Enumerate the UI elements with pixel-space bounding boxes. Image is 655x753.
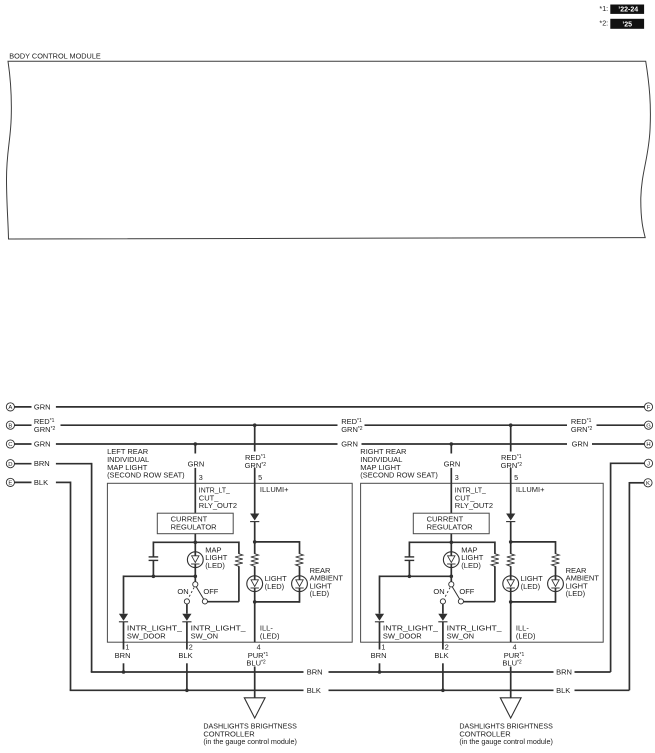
junction ill- row bbox=[509, 600, 513, 604]
svg-text:BLK: BLK bbox=[307, 686, 321, 695]
wire pin5 upper bbox=[510, 425, 512, 451]
LED light bbox=[503, 576, 519, 592]
svg-text:’25: ’25 bbox=[622, 22, 632, 29]
svg-text:RIGHT REARINDIVIDUALMAP LIGHT: RIGHT REARINDIVIDUALMAP LIGHT bbox=[360, 447, 407, 472]
wire pin4 in box bbox=[254, 602, 256, 642]
wire BLK bus seg2 bbox=[329, 689, 554, 691]
svg-text:E: E bbox=[8, 481, 12, 487]
wire pin5 lower bbox=[254, 468, 256, 514]
svg-text:BRN: BRN bbox=[307, 668, 323, 677]
wire to resistor (light) bbox=[254, 542, 256, 554]
wire bus B seg3 bbox=[597, 424, 645, 426]
wire pin1 to BRN bus bbox=[379, 663, 381, 672]
svg-text:BRN: BRN bbox=[371, 651, 387, 660]
svg-text:G: G bbox=[646, 423, 651, 429]
wire pin5 lower bbox=[510, 468, 512, 514]
wire bus B seg2 bbox=[365, 424, 568, 426]
LED map light bbox=[187, 552, 203, 568]
capacitor bbox=[149, 557, 159, 561]
svg-text:BRN: BRN bbox=[115, 651, 131, 660]
junction pin2 on BLK bus bbox=[441, 689, 445, 693]
wire bus C seg3 bbox=[592, 443, 644, 445]
wire LED light down bbox=[510, 592, 512, 602]
junction pin1 on BRN bus bbox=[122, 670, 126, 674]
wire K horizontal bbox=[629, 482, 644, 484]
wire diode to junction bbox=[510, 522, 512, 542]
connector J bbox=[644, 459, 652, 467]
note *2 value box '25 bbox=[610, 19, 644, 29]
wire OFF to resistor bbox=[464, 601, 495, 603]
connector C bbox=[6, 440, 14, 448]
svg-text:LIGHT(LED): LIGHT(LED) bbox=[521, 574, 544, 591]
wire lower row bbox=[380, 575, 452, 577]
diode (sw_door) bbox=[119, 614, 128, 622]
junction pin1 on BRN bus bbox=[378, 670, 382, 674]
wire resistor to LED (rear) bbox=[299, 566, 301, 576]
junction on bus C bbox=[194, 442, 198, 446]
dashlights brightness controller symbol bbox=[500, 698, 521, 718]
wire BLK bus seg3 bbox=[575, 689, 630, 691]
svg-text:ILLUMI+: ILLUMI+ bbox=[516, 485, 545, 494]
svg-text:ILLUMI+: ILLUMI+ bbox=[260, 485, 289, 494]
wire regulator to junction bbox=[450, 534, 452, 543]
wire pin2 to BLK bus bbox=[442, 663, 444, 690]
wire diode to box edge bbox=[442, 622, 444, 650]
svg-text:3: 3 bbox=[199, 473, 203, 482]
wire J horizontal bbox=[611, 462, 645, 464]
svg-text:J: J bbox=[647, 461, 650, 467]
body control module box bbox=[6, 61, 650, 239]
wire resistor to OFF row bbox=[494, 566, 496, 602]
resistor (rear ambient) bbox=[552, 554, 560, 567]
LED rear ambient light bbox=[292, 576, 308, 592]
wire stub A bbox=[15, 406, 32, 408]
switch OFF terminal bbox=[202, 599, 207, 604]
wire pin4 in box bbox=[510, 602, 512, 642]
wire to resistor (rear ambient) bbox=[555, 541, 557, 554]
svg-text:(SECOND ROW SEAT): (SECOND ROW SEAT) bbox=[360, 471, 438, 480]
wire E vertical to BLK bus bbox=[70, 482, 72, 691]
junction on bus B bbox=[509, 423, 513, 427]
wire illumi row bbox=[511, 541, 556, 543]
connector A bbox=[6, 403, 14, 411]
wire to switch pivot bbox=[194, 576, 196, 582]
wire ON terminal down bbox=[442, 604, 444, 614]
wire pin3 lower bbox=[194, 468, 196, 513]
svg-text:BLK: BLK bbox=[34, 478, 48, 487]
wire regulator to junction bbox=[194, 534, 196, 543]
svg-text:ON: ON bbox=[177, 587, 188, 596]
switch blade bbox=[451, 585, 460, 600]
svg-text:BLK: BLK bbox=[178, 651, 192, 660]
wire pin3 upper bbox=[450, 444, 452, 454]
wire to capacitor bbox=[408, 541, 410, 556]
wire to switch pivot bbox=[450, 576, 452, 582]
svg-text:GRN: GRN bbox=[34, 402, 51, 411]
svg-text:GRN: GRN bbox=[444, 459, 461, 468]
svg-text:B: B bbox=[8, 423, 12, 429]
wire row cap-regulator-resistor bbox=[153, 541, 239, 543]
connector G bbox=[644, 421, 652, 429]
wire stub D bbox=[15, 463, 32, 465]
wire BRN bus seg3 bbox=[575, 671, 611, 673]
dashlights brightness controller symbol bbox=[244, 698, 265, 718]
junction below regulator bbox=[194, 541, 198, 545]
svg-text:BLK: BLK bbox=[434, 651, 448, 660]
wire resistor to LED (light) bbox=[254, 566, 256, 576]
wire LED rear down bbox=[299, 592, 301, 603]
LED map light bbox=[443, 552, 459, 568]
switch ON terminal bbox=[440, 599, 445, 604]
wire OFF to resistor bbox=[208, 601, 239, 603]
junction capacitor lower bbox=[408, 575, 412, 579]
svg-text:K: K bbox=[646, 481, 650, 487]
wire D horizontal bbox=[56, 463, 92, 465]
connector E bbox=[6, 478, 14, 486]
wire lower row bbox=[124, 575, 196, 577]
resistor (map light) bbox=[235, 554, 243, 567]
wire to capacitor bbox=[152, 541, 154, 556]
junction capacitor lower bbox=[152, 575, 156, 579]
wire regulator junction to LED bbox=[194, 542, 196, 552]
svg-text:(SECOND ROW SEAT): (SECOND ROW SEAT) bbox=[107, 471, 185, 480]
wire row cap-regulator-resistor bbox=[409, 541, 495, 543]
connector K bbox=[644, 479, 652, 487]
wire E horizontal bbox=[56, 481, 71, 483]
unit box RIGHT REAR bbox=[361, 483, 604, 642]
wire BRN bus seg1 bbox=[91, 671, 304, 673]
wire pin3 upper bbox=[194, 444, 196, 454]
LED light bbox=[247, 576, 263, 592]
svg-text:OFF: OFF bbox=[203, 587, 218, 596]
svg-text:GRN: GRN bbox=[188, 459, 205, 468]
wire diode to box edge (pin1) bbox=[123, 622, 125, 650]
wire resistor to LED (rear) bbox=[555, 566, 557, 576]
LED rear ambient light bbox=[548, 576, 564, 592]
svg-text:BODY CONTROL MODULE: BODY CONTROL MODULE bbox=[9, 52, 101, 61]
wire stub B bbox=[15, 424, 32, 426]
svg-text:3: 3 bbox=[455, 473, 459, 482]
switch ON terminal bbox=[184, 599, 189, 604]
svg-text:OFF: OFF bbox=[459, 587, 474, 596]
switch blade dashed (to ON) bbox=[444, 587, 450, 598]
note *1 value box '22-24 bbox=[610, 5, 644, 14]
diode (sw_on) bbox=[438, 614, 447, 622]
wire D vertical to BRN bus bbox=[91, 463, 93, 672]
wire K vertical to BLK bus bbox=[628, 482, 630, 690]
junction on bus C bbox=[450, 442, 454, 446]
switch blade bbox=[195, 585, 204, 600]
svg-text:D: D bbox=[8, 462, 12, 468]
wire lower row corner down bbox=[379, 575, 381, 613]
svg-text:C: C bbox=[8, 442, 13, 448]
diode (sw_door) bbox=[375, 614, 384, 622]
wire lower row corner down bbox=[123, 575, 125, 613]
junction on bus B bbox=[253, 423, 257, 427]
wire illumi row bbox=[255, 541, 300, 543]
wire ill- row bbox=[511, 601, 556, 603]
wire bus C seg2 bbox=[362, 443, 568, 445]
wire pin2 to BLK bus bbox=[186, 663, 188, 690]
wire capacitor to lower row bbox=[152, 560, 154, 576]
svg-text:GRN: GRN bbox=[341, 440, 358, 449]
resistor (light) bbox=[507, 554, 515, 567]
wire LED to lower row bbox=[194, 568, 196, 577]
junction LED lower bbox=[450, 575, 454, 579]
wire diode to junction bbox=[254, 522, 256, 542]
svg-text:*1:: *1: bbox=[599, 4, 608, 13]
switch OFF terminal bbox=[458, 599, 463, 604]
switch pivot bbox=[449, 582, 454, 587]
wire stub C bbox=[15, 443, 32, 445]
wire pin4 to controller bbox=[510, 667, 512, 698]
junction illumi row bbox=[253, 540, 257, 544]
svg-text:ON: ON bbox=[433, 587, 444, 596]
wire to resistor (light) bbox=[510, 542, 512, 554]
switch pivot bbox=[193, 582, 198, 587]
connector F bbox=[644, 403, 652, 411]
connector H bbox=[644, 440, 652, 448]
svg-text:GRN: GRN bbox=[572, 440, 589, 449]
wire pin5 upper bbox=[254, 425, 256, 451]
wire regulator junction to LED bbox=[450, 542, 452, 552]
wire diode to box edge bbox=[186, 622, 188, 650]
wire stub E bbox=[15, 481, 32, 483]
capacitor bbox=[405, 557, 415, 561]
wire ill- row bbox=[255, 601, 300, 603]
wire capacitor to lower row bbox=[408, 560, 410, 576]
resistor (light) bbox=[251, 554, 259, 567]
diode (illumi feed) bbox=[506, 514, 515, 522]
diode (sw_on) bbox=[182, 614, 191, 622]
wire bus B seg1 bbox=[61, 424, 338, 426]
current regulator box bbox=[413, 513, 489, 534]
connector B bbox=[6, 421, 14, 429]
resistor (rear ambient) bbox=[296, 554, 304, 567]
svg-text:LIGHT(LED): LIGHT(LED) bbox=[265, 574, 288, 591]
junction below regulator bbox=[450, 541, 454, 545]
svg-text:LEFT REARINDIVIDUALMAP LIGHT: LEFT REARINDIVIDUALMAP LIGHT bbox=[107, 447, 149, 472]
wire pin3 lower bbox=[450, 468, 452, 513]
svg-text:H: H bbox=[646, 442, 650, 448]
svg-text:BLK: BLK bbox=[556, 686, 570, 695]
resistor (map light) bbox=[491, 554, 499, 567]
svg-text:5: 5 bbox=[258, 473, 262, 482]
wire BLK bus seg1 bbox=[70, 689, 304, 691]
wire resistor to LED (light) bbox=[510, 566, 512, 576]
wire pin4 to controller bbox=[254, 667, 256, 698]
current regulator box bbox=[157, 513, 233, 534]
wire to resistor (rear ambient) bbox=[299, 541, 301, 554]
connector D bbox=[6, 460, 14, 468]
wire LED to lower row bbox=[450, 568, 452, 577]
switch blade dashed (to ON) bbox=[188, 587, 194, 598]
wire bus C seg1 bbox=[56, 443, 338, 445]
wire to resistor (map) bbox=[238, 541, 240, 553]
svg-text:5: 5 bbox=[514, 473, 518, 482]
wire diode to box edge (pin1) bbox=[379, 622, 381, 650]
svg-text:A: A bbox=[8, 405, 12, 411]
wire ON terminal down bbox=[186, 604, 188, 614]
unit box LEFT REAR bbox=[107, 483, 352, 642]
wire J vertical to BRN bus bbox=[610, 462, 612, 672]
junction LED lower bbox=[194, 575, 198, 579]
junction pin2 on BLK bus bbox=[185, 689, 189, 693]
wire pin1 to BRN bus bbox=[123, 663, 125, 672]
junction ill- row bbox=[253, 600, 257, 604]
wire BRN bus seg2 bbox=[329, 671, 554, 673]
wire LED light down bbox=[254, 592, 256, 602]
svg-text:BRN: BRN bbox=[556, 668, 572, 677]
svg-text:*2:: *2: bbox=[599, 19, 608, 28]
svg-text:GRN: GRN bbox=[34, 440, 51, 449]
wire bus A (GRN) bbox=[56, 406, 645, 408]
wire resistor to OFF row bbox=[238, 566, 240, 602]
junction illumi row bbox=[509, 540, 513, 544]
svg-text:BRN: BRN bbox=[34, 459, 50, 468]
wire to resistor (map) bbox=[494, 541, 496, 553]
svg-text:F: F bbox=[647, 405, 651, 411]
svg-text:’22-24: ’22-24 bbox=[618, 7, 638, 14]
wire LED rear down bbox=[555, 592, 557, 603]
diode (illumi feed) bbox=[250, 514, 259, 522]
